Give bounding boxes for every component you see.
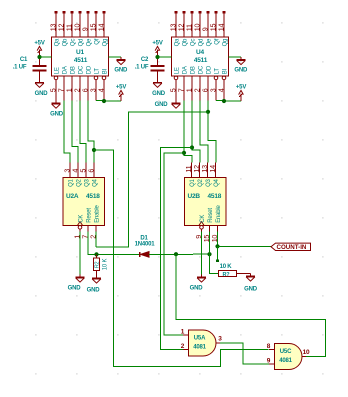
wire U2B Enable pin down (217, 232, 219, 247)
svg-text:6: 6 (86, 169, 95, 173)
svg-text:LT: LT (215, 68, 221, 75)
svg-text:Q2: Q2 (198, 178, 204, 186)
+5V below U1 (119, 90, 124, 101)
U1 top pin 9 (Qe) (87, 13, 89, 38)
svg-text:U2B: U2B (188, 193, 201, 200)
hierarchical label COUNT-IN (271, 243, 311, 250)
svg-text:GND: GND (114, 67, 128, 73)
svg-text:COUNT-IN: COUNT-IN (277, 244, 307, 251)
wire U2B Q4 to U2A Enable (96, 112, 208, 247)
svg-text:DB: DB (191, 66, 197, 74)
wire C2 junction to U4 left (158, 56, 172, 58)
svg-text:Qd: Qd (79, 39, 85, 47)
svg-text:GND: GND (152, 91, 166, 97)
ground below C1 (35, 80, 44, 88)
wire U4 DB to U2B Q2 (192, 101, 200, 163)
svg-text:Q1: Q1 (190, 178, 196, 186)
U2A bottom pin 7 (Reset) (87, 226, 89, 232)
svg-text:+5V: +5V (116, 84, 126, 90)
junction R2 top (94, 252, 98, 256)
junction at C1 top (37, 55, 41, 59)
U4 bottom pin 4 (BI) (222, 76, 226, 80)
wire U4 DA to U2B Q1 (184, 101, 192, 163)
wire diode anode to U2B Reset (149, 253, 210, 255)
wire U4 LT/BI to +5V (216, 100, 241, 102)
svg-text:.1 UF: .1 UF (135, 64, 149, 70)
U5A input pin 2 (183, 349, 189, 351)
U1 bottom pin 5 (LE) (54, 76, 58, 80)
U4 top pin 15 (Qf) (215, 13, 217, 38)
svg-text:Qb: Qb (183, 38, 189, 46)
junction U2B Q2 tap (190, 145, 194, 149)
svg-text:.1 UF: .1 UF (13, 64, 27, 70)
svg-text:Enable: Enable (95, 204, 101, 222)
svg-text:Qa: Qa (55, 38, 61, 46)
junction U4 BI (222, 99, 226, 103)
svg-text:9: 9 (267, 358, 271, 365)
wire reset node to resistor R? (210, 254, 219, 273)
svg-text:4511: 4511 (194, 57, 208, 64)
U2B bottom pin 10 (Enable) (217, 226, 219, 232)
junction at C2 top (155, 55, 159, 59)
U4 top pin 12 (Qb) (183, 13, 185, 38)
+5V below U4 (239, 90, 244, 101)
U1 top pin 13 (Qa) (55, 13, 57, 38)
svg-text:BI: BI (223, 68, 229, 74)
wire U5C output feedback to reset net (176, 254, 326, 356)
7-segment decoder IC U4 4511 body (172, 37, 229, 76)
U4 bottom pin 3 (LT) (214, 76, 218, 80)
wire U4 DD to U2B Q4 (208, 101, 216, 163)
BCD counter IC U2A 4518 body (63, 178, 105, 226)
svg-text:GND: GND (50, 112, 64, 118)
resistor R2 10K (96, 254, 98, 258)
svg-text:GND: GND (35, 91, 49, 97)
svg-text:GND: GND (234, 67, 248, 73)
svg-text:U1: U1 (76, 49, 84, 56)
svg-text:DB: DB (71, 66, 77, 74)
svg-text:R2: R2 (95, 262, 101, 269)
svg-text:Q3: Q3 (85, 178, 91, 186)
ground below C2 (153, 80, 162, 88)
ground below U2B CK (197, 275, 206, 283)
U1 top pin 10 (Qd) (79, 13, 81, 38)
U2A bottom pin 1 (CK) (78, 226, 82, 230)
junction U1 BI (102, 99, 106, 103)
U2A top pin 3 (Q1) (69, 163, 71, 178)
svg-text:2: 2 (181, 343, 185, 350)
U4 bottom pin 6 (DD) (207, 76, 209, 101)
svg-text:Qf: Qf (95, 38, 101, 44)
+5V power above C1 (37, 46, 42, 57)
wire C1 junction to U1 left (40, 56, 52, 58)
ground below U2A CK (76, 275, 85, 283)
svg-text:DD: DD (87, 65, 93, 74)
U1 bottom pin 1 (DB) (71, 76, 73, 101)
wire U2B Q2 to U5A input 2 (161, 148, 192, 350)
U2A top pin 4 (Q2) (77, 163, 79, 178)
svg-text:4518: 4518 (86, 193, 100, 200)
svg-text:Enable: Enable (216, 204, 222, 222)
U2A bottom pin 2 (Enable) (95, 226, 97, 232)
ground below U1 pin 5 (LE) (52, 101, 61, 109)
ground right of U1 (117, 57, 126, 65)
wire U2A Enable pin down (95, 232, 97, 247)
U1 top pin 14 (Qg) (103, 13, 105, 38)
svg-text:GND: GND (190, 286, 204, 292)
U1 top pin 11 (Qc) (71, 13, 73, 38)
svg-text:U2A: U2A (66, 193, 79, 200)
U2B top pin 11 (Q1) (191, 163, 193, 178)
wire U1 DC to U2A Q3 (80, 101, 86, 163)
svg-text:Q4: Q4 (214, 178, 220, 186)
svg-text:Reset: Reset (87, 208, 93, 223)
svg-text:4511: 4511 (74, 57, 88, 64)
U5C output pin 10 (302, 356, 306, 358)
svg-text:4: 4 (216, 88, 225, 92)
svg-text:LE: LE (175, 67, 181, 74)
+5V power above C2 (155, 46, 160, 57)
U1 bottom pin 4 (BI) (102, 76, 106, 80)
svg-text:DC: DC (79, 65, 85, 74)
svg-text:GND: GND (155, 102, 169, 108)
svg-text:U5C: U5C (280, 349, 292, 355)
7-segment decoder IC U1 4511 body (52, 37, 109, 76)
svg-text:R?: R? (223, 272, 231, 278)
wire U5A output to U5C input 9 (220, 343, 269, 364)
svg-text:DA: DA (183, 66, 189, 74)
svg-text:4081: 4081 (279, 358, 292, 364)
junction COUNT-IN node (215, 244, 219, 248)
svg-text:10: 10 (303, 349, 310, 356)
U2B bottom pin 9 (CK) (200, 226, 204, 230)
svg-text:+5V: +5V (152, 40, 162, 46)
wire U1 DA to U2A Q1 (64, 101, 70, 163)
junction feedback to reset net (174, 252, 178, 256)
U1 top pin 12 (Qb) (63, 13, 65, 38)
AND gate U5C 4081 body (275, 344, 303, 370)
ground below U4 pin 5 (LE) (172, 101, 181, 109)
svg-text:GND: GND (87, 288, 101, 294)
U1 bottom pin 3 (LT) (94, 76, 98, 80)
U4 top pin 14 (Qg) (223, 13, 225, 38)
U2B top pin 13 (Q3) (207, 163, 209, 178)
U2B top pin 12 (Q2) (199, 163, 201, 178)
svg-text:Q2: Q2 (77, 178, 83, 186)
dangling wire stub below COUNT-IN junction (217, 246, 219, 259)
U5A input pin 1 (183, 334, 189, 336)
ground right of R? (246, 274, 255, 282)
svg-text:Reset: Reset (208, 208, 214, 223)
BCD counter IC U2B 4518 body (185, 178, 227, 226)
U4 top pin 11 (Qc) (191, 13, 193, 38)
wire to COUNT-IN label (218, 245, 272, 247)
svg-text:4081: 4081 (193, 345, 206, 351)
svg-text:BI: BI (103, 68, 109, 74)
U1 bottom pin 2 (DC) (79, 76, 81, 101)
U5A output pin 3 (216, 342, 220, 344)
svg-text:CK: CK (79, 215, 85, 223)
svg-text:DC: DC (199, 65, 205, 74)
U1 bottom pin 7 (DA) (63, 76, 65, 101)
wire U2B Reset pin down (209, 232, 211, 255)
svg-text:Qe: Qe (87, 38, 93, 46)
U4 top pin 13 (Qa) (175, 13, 177, 38)
U5C input pin 8 (269, 349, 275, 351)
svg-text:CK: CK (200, 215, 206, 223)
resistor R? 10K horizontal (219, 271, 237, 277)
U2B top pin 14 (Q4) (215, 163, 217, 178)
svg-text:14: 14 (208, 165, 217, 173)
wire U2A Q4 to U5C input 8 (94, 150, 269, 367)
svg-text:14: 14 (96, 24, 105, 32)
junction U4 DD / cascade (206, 110, 210, 114)
svg-text:GND: GND (244, 287, 258, 293)
svg-text:Q4: Q4 (93, 178, 99, 186)
svg-text:Q1: Q1 (69, 178, 75, 186)
svg-text:LE: LE (55, 67, 61, 74)
svg-text:+5V: +5V (236, 84, 246, 90)
AND gate U5A 4081 body (189, 330, 217, 356)
wire U2B Q1 to U5A input 1 (164, 153, 184, 335)
U2A top pin 5 (Q3) (85, 163, 87, 178)
capacitor C1 .1uF (33, 57, 47, 80)
svg-text:DA: DA (63, 66, 69, 74)
junction U2B Reset (207, 252, 211, 256)
svg-text:DD: DD (207, 65, 213, 74)
svg-text:3: 3 (218, 336, 222, 343)
wire U2A Reset to diode cathode (88, 232, 139, 255)
wire U1 right to ground (109, 56, 122, 58)
svg-text:1: 1 (181, 329, 185, 336)
svg-text:10 K: 10 K (102, 258, 108, 270)
svg-text:10 K: 10 K (220, 264, 233, 270)
capacitor C2 .1uF (151, 57, 165, 80)
wire U1 DB to U2A Q2 (72, 101, 78, 163)
svg-text:Qc: Qc (71, 39, 77, 46)
svg-text:Qg: Qg (223, 39, 229, 47)
ground below R2 (92, 276, 101, 284)
U4 bottom pin 7 (DA) (183, 76, 185, 101)
svg-text:1N4001: 1N4001 (135, 241, 156, 247)
ground right of U4 (237, 57, 246, 65)
svg-text:GND: GND (68, 286, 82, 292)
svg-text:C1: C1 (20, 57, 28, 63)
wire U1 DD to U2A Q4 (88, 101, 94, 163)
U2B bottom pin 15 (Reset) (209, 226, 211, 232)
junction U2B Q1 tap (182, 151, 186, 155)
svg-text:U4: U4 (196, 49, 204, 56)
junction U2A Q4 tap (92, 148, 96, 152)
wire U1 LT/BI to +5V (96, 100, 121, 102)
svg-text:U5A: U5A (194, 336, 206, 342)
svg-text:Q3: Q3 (206, 178, 212, 186)
wire U2A CK to ground (79, 232, 81, 275)
svg-text:Qd: Qd (199, 39, 205, 47)
svg-text:Qb: Qb (63, 38, 69, 46)
svg-text:Qg: Qg (103, 39, 109, 47)
U1 bottom pin 6 (DD) (87, 76, 89, 101)
U4 bottom pin 1 (DB) (191, 76, 193, 101)
U2A top pin 6 (Q4) (93, 163, 95, 178)
U5C input pin 9 (269, 363, 275, 365)
svg-text:4: 4 (96, 88, 105, 92)
U4 top pin 9 (Qe) (207, 13, 209, 38)
svg-text:Qf: Qf (215, 38, 221, 44)
svg-text:4518: 4518 (208, 193, 222, 200)
U4 top pin 10 (Qd) (199, 13, 201, 38)
U1 top pin 15 (Qf) (95, 13, 97, 38)
U4 bottom pin 2 (DC) (199, 76, 201, 101)
wire U2B CK to ground (201, 232, 203, 275)
diode D1 1N4001 (140, 252, 149, 258)
svg-text:LT: LT (95, 68, 101, 75)
wire U4 DC to U2B Q3 (200, 101, 208, 163)
svg-text:8: 8 (267, 343, 271, 350)
svg-text:14: 14 (216, 24, 225, 32)
svg-text:Qe: Qe (207, 38, 213, 46)
svg-text:Qa: Qa (175, 38, 181, 46)
wire U4 right to ground (229, 56, 242, 58)
svg-text:C2: C2 (141, 57, 149, 63)
svg-text:+5V: +5V (34, 40, 44, 46)
svg-text:Qc: Qc (191, 39, 197, 46)
U4 bottom pin 5 (LE) (174, 76, 178, 80)
